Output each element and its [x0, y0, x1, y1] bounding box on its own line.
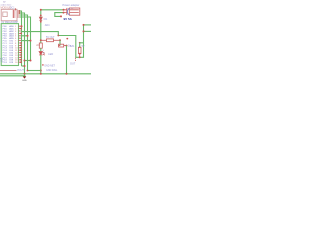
red tick mid bottom — [42, 64, 44, 66]
wire chain1 vertical from W1 — [40, 10, 42, 43]
wire pin2 L — [20, 13, 25, 76]
diode D2 on chain1 — [39, 17, 42, 20]
junction dot rail60b — [30, 60, 32, 62]
wire bus1 bottom jog — [22, 65, 25, 67]
junction dot chain1 top — [40, 9, 42, 11]
svg-text:Power adapter: Power adapter — [63, 3, 80, 7]
junction dot jog — [24, 65, 26, 67]
junction dot bus4 — [30, 40, 32, 42]
wire red net bottom left — [0, 70, 17, 72]
IC U1 box — [1, 24, 18, 66]
pin junction dots — [19, 10, 21, 14]
module M1 box — [1, 9, 17, 20]
module M1 inner rect — [3, 12, 7, 17]
wire row connect bus4 — [21, 40, 31, 42]
wire fanout from module to vertical bus — [20, 11, 31, 76]
wire pin3 L — [20, 15, 28, 71]
wire rail tap y70.5 — [28, 70, 41, 72]
wire R3 down to ground rail — [66, 46, 68, 74]
junction dot tap70 — [27, 70, 29, 72]
module M1 pin marks — [13, 10, 16, 18]
wire Q1 top tap — [80, 43, 84, 47]
wire B from IC to right side — [21, 25, 84, 57]
node VIN label text top-left purple — [1, 1, 13, 7]
ground symbol GND — [22, 74, 27, 82]
svg-text:LED: LED — [48, 53, 53, 56]
resistor R2 horizontal — [41, 39, 60, 42]
svg-text:220: 220 — [36, 44, 41, 47]
junction dot R3 right — [66, 45, 68, 47]
junction dot right stub top — [83, 24, 85, 26]
svg-text:BZ1: BZ1 — [70, 45, 75, 48]
wire pin4 L — [20, 17, 31, 61]
wire R1 to LED1 — [40, 48, 42, 51]
wire R2 to R3 — [59, 40, 61, 45]
wire W1 top net — [41, 9, 64, 11]
svg-text:OUT: OUT — [70, 62, 76, 65]
pin marks below left leg — [74, 58, 76, 62]
wire LED1 down — [40, 55, 42, 74]
resistor R1 vertical in chain1 — [39, 43, 42, 48]
diode D2 pin dots — [40, 15, 42, 17]
wire ground rail L1 — [0, 73, 91, 75]
svg-text:9V 5A: 9V 5A — [64, 17, 73, 21]
resistor R3 horizontal — [59, 44, 67, 47]
junction dot bus1 end — [21, 25, 23, 27]
wire rail tap y60.5 — [25, 60, 31, 62]
junction dot wireB branch — [57, 35, 59, 37]
junction dot R2 right — [59, 39, 61, 41]
wire pin1 L — [20, 11, 22, 66]
wire W2 second net — [55, 13, 64, 17]
svg-text:VOUT: VOUT — [17, 69, 24, 72]
junction dot right stub second — [83, 30, 85, 32]
wire stub right edge second — [84, 30, 92, 32]
connector J1 jack arc blue — [67, 9, 69, 15]
component Q1 pin dots — [79, 42, 81, 58]
IC U1 right pin stubs — [19, 26, 22, 62]
module M1 pin stubs right — [17, 11, 20, 17]
junction dot bus3 — [27, 35, 29, 37]
junction dot chain1 R2 tap — [40, 39, 42, 41]
wire rail L2 — [0, 75, 26, 77]
junction dot rail60 — [24, 60, 26, 62]
svg-text:AD4: AD4 — [45, 24, 50, 27]
wire row connect bus3 — [21, 35, 28, 37]
IC U1 unconnected pin end dots — [20, 28, 22, 63]
wire stub right edge top — [84, 24, 92, 26]
junction dots on rail L1 — [24, 73, 68, 75]
node labels left of IC — [0, 59, 4, 64]
svg-text:5V: 5V — [82, 45, 85, 48]
junction dot stray — [66, 38, 68, 40]
LED D1 — [39, 52, 45, 56]
wire end dot W2 stub — [60, 15, 62, 17]
svg-text:GND: GND — [22, 80, 27, 82]
svg-text:GND NET: GND NET — [44, 64, 55, 67]
component Q1 right side vertical — [78, 47, 81, 57]
IC U1 pin rows — [3, 25, 19, 64]
module M1 pin1 tick — [15, 8, 17, 10]
connector J1 pin dots — [63, 9, 65, 14]
svg-text:GND RAIL: GND RAIL — [46, 69, 58, 72]
junction dot chain1 bottom — [40, 70, 42, 72]
connector J1 symbol — [64, 8, 80, 15]
